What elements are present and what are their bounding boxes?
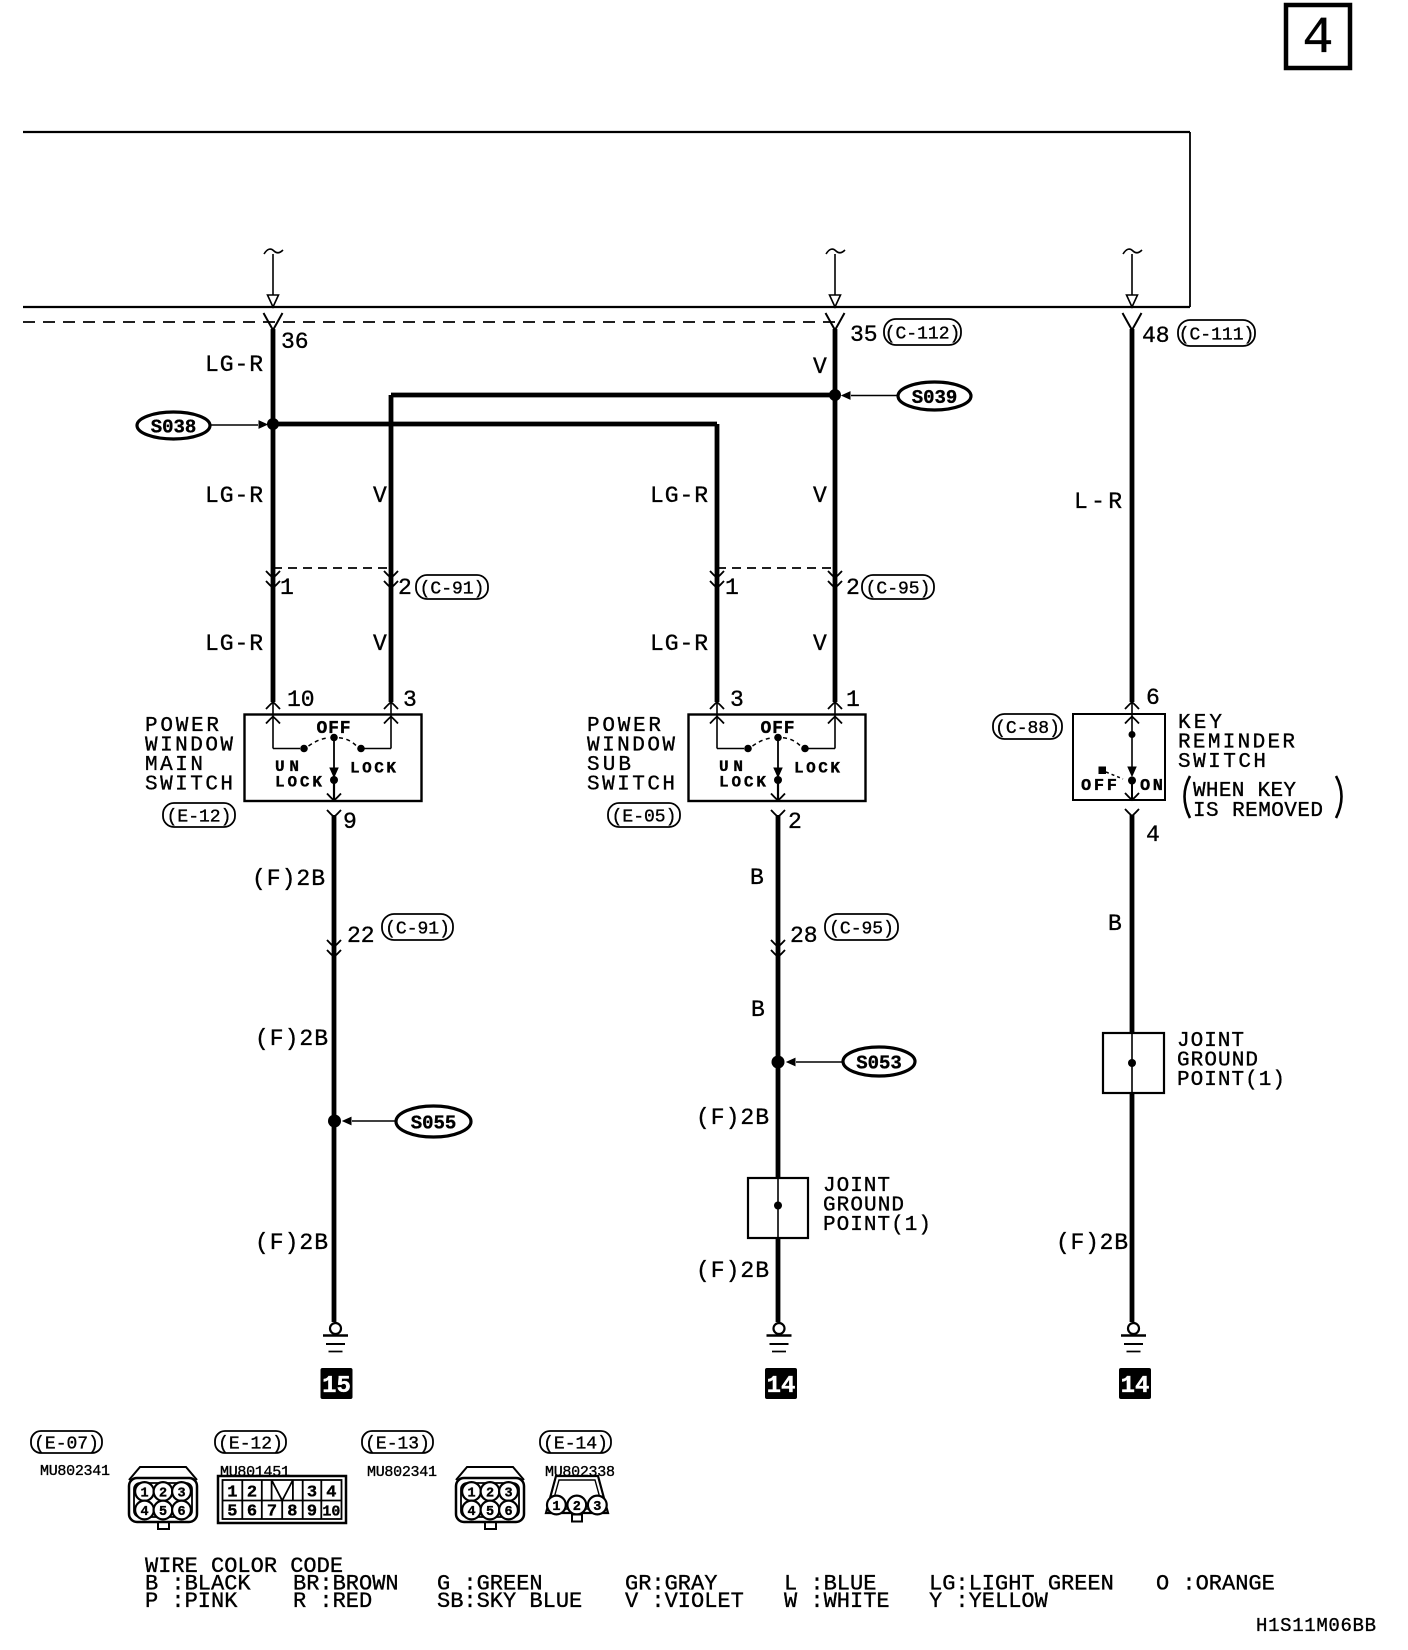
svg-text:7: 7 xyxy=(267,1503,277,1522)
svg-text:W :WHITE: W :WHITE xyxy=(784,1589,890,1614)
svg-text:V: V xyxy=(813,354,827,380)
svg-text:(F)2B: (F)2B xyxy=(1056,1230,1128,1256)
svg-text:2: 2 xyxy=(846,575,860,601)
svg-text:(C-112): (C-112) xyxy=(885,324,961,344)
svg-text:4: 4 xyxy=(326,1484,336,1503)
svg-text:3: 3 xyxy=(504,1487,512,1502)
svg-text:5: 5 xyxy=(486,1505,494,1520)
svg-text:WINDOW: WINDOW xyxy=(145,735,233,758)
svg-text:POINT(1): POINT(1) xyxy=(1177,1069,1285,1092)
svg-text:8: 8 xyxy=(287,1503,297,1522)
svg-text:(C-91): (C-91) xyxy=(385,919,450,939)
svg-text:(E-12): (E-12) xyxy=(218,1434,283,1454)
svg-text:LG-R: LG-R xyxy=(650,631,708,657)
svg-text:LG-R: LG-R xyxy=(205,352,263,378)
svg-text:9: 9 xyxy=(307,1503,317,1522)
svg-text:1: 1 xyxy=(467,1487,475,1502)
svg-text:LOCK: LOCK xyxy=(719,774,766,792)
svg-text:MU802341: MU802341 xyxy=(40,1463,110,1480)
svg-text:S055: S055 xyxy=(411,1113,457,1135)
svg-text:LG-R: LG-R xyxy=(650,483,708,509)
svg-text:4: 4 xyxy=(467,1505,475,1520)
svg-text:4: 4 xyxy=(1146,822,1160,848)
svg-text:2: 2 xyxy=(486,1487,494,1502)
svg-text:B: B xyxy=(750,865,764,891)
svg-text:(C-95): (C-95) xyxy=(866,579,931,599)
svg-text:3: 3 xyxy=(177,1487,185,1502)
svg-text:OFF: OFF xyxy=(761,719,795,739)
svg-text:(E-13): (E-13) xyxy=(365,1434,430,1454)
svg-text:B: B xyxy=(751,997,765,1023)
svg-text:O :ORANGE: O :ORANGE xyxy=(1156,1572,1275,1597)
svg-text:SB:SKY BLUE: SB:SKY BLUE xyxy=(437,1589,582,1614)
svg-text:1: 1 xyxy=(552,1500,560,1515)
svg-text:V: V xyxy=(813,483,827,509)
svg-text:10: 10 xyxy=(287,687,315,713)
svg-text:ON: ON xyxy=(1140,777,1163,796)
svg-text:6: 6 xyxy=(1146,685,1160,711)
svg-text:P :PINK: P :PINK xyxy=(145,1589,238,1614)
svg-text:2: 2 xyxy=(398,575,412,601)
svg-text:6: 6 xyxy=(247,1503,257,1522)
svg-text:WINDOW: WINDOW xyxy=(587,735,675,758)
svg-text:9: 9 xyxy=(343,809,357,835)
svg-text:LOCK: LOCK xyxy=(350,760,396,778)
svg-text:(E-14): (E-14) xyxy=(543,1434,608,1454)
svg-text:S053: S053 xyxy=(856,1053,902,1075)
svg-text:LOCK: LOCK xyxy=(794,760,840,778)
svg-text:(C-111): (C-111) xyxy=(1179,325,1255,345)
svg-text:28: 28 xyxy=(790,923,818,949)
svg-text:(F)2B: (F)2B xyxy=(696,1258,769,1284)
svg-text:L-R: L-R xyxy=(1074,489,1122,515)
svg-text:2: 2 xyxy=(159,1487,167,1502)
svg-text:V: V xyxy=(373,483,387,509)
svg-text:35: 35 xyxy=(850,322,878,348)
svg-text:(E-05): (E-05) xyxy=(612,807,677,827)
svg-text:3: 3 xyxy=(730,687,744,713)
svg-text:(C-91): (C-91) xyxy=(420,579,485,599)
svg-text:3: 3 xyxy=(307,1484,317,1503)
svg-text:V: V xyxy=(813,631,827,657)
svg-text:IS REMOVED: IS REMOVED xyxy=(1193,800,1323,823)
svg-text:LG-R: LG-R xyxy=(205,631,263,657)
svg-text:(C-95): (C-95) xyxy=(829,919,894,939)
svg-text:2: 2 xyxy=(573,1500,581,1515)
svg-text:V :VIOLET: V :VIOLET xyxy=(625,1589,744,1614)
svg-text:5: 5 xyxy=(227,1503,237,1522)
svg-text:(F)2B: (F)2B xyxy=(252,866,325,892)
svg-text:1: 1 xyxy=(140,1487,148,1502)
svg-text:5: 5 xyxy=(159,1505,167,1520)
svg-text:14: 14 xyxy=(767,1373,796,1400)
svg-text:3: 3 xyxy=(403,687,417,713)
svg-text:1: 1 xyxy=(280,575,294,601)
svg-text:1: 1 xyxy=(227,1484,237,1503)
svg-text:10: 10 xyxy=(322,1504,340,1521)
svg-text:36: 36 xyxy=(281,329,309,355)
svg-text:4: 4 xyxy=(1302,9,1333,68)
svg-text:OFF: OFF xyxy=(1081,777,1117,796)
svg-text:LOCK: LOCK xyxy=(275,774,322,792)
svg-text:(F)2B: (F)2B xyxy=(255,1026,328,1052)
svg-text:1: 1 xyxy=(846,687,860,713)
svg-text:22: 22 xyxy=(347,923,375,949)
svg-text:B: B xyxy=(1108,911,1122,937)
svg-text:2: 2 xyxy=(788,809,802,835)
svg-text:MU802341: MU802341 xyxy=(367,1464,437,1481)
svg-text:OFF: OFF xyxy=(317,719,351,739)
svg-text:15: 15 xyxy=(322,1373,351,1400)
svg-text:S038: S038 xyxy=(151,417,197,439)
svg-text:SWITCH: SWITCH xyxy=(587,774,675,797)
svg-text:Y :YELLOW: Y :YELLOW xyxy=(929,1589,1049,1614)
svg-text:14: 14 xyxy=(1121,1373,1150,1400)
svg-text:4: 4 xyxy=(140,1505,148,1520)
svg-text:(E-07): (E-07) xyxy=(34,1434,99,1454)
svg-text:H1S11M06BB: H1S11M06BB xyxy=(1256,1615,1376,1637)
svg-text:48: 48 xyxy=(1142,323,1170,349)
svg-text:(E-12): (E-12) xyxy=(167,807,232,827)
svg-text:POINT(1): POINT(1) xyxy=(823,1214,931,1237)
svg-text:6: 6 xyxy=(504,1505,512,1520)
svg-text:S039: S039 xyxy=(912,387,958,409)
svg-text:3: 3 xyxy=(593,1500,601,1515)
svg-text:(F)2B: (F)2B xyxy=(696,1105,769,1131)
svg-text:R :RED: R :RED xyxy=(293,1589,372,1614)
svg-text:MU801451: MU801451 xyxy=(220,1464,290,1481)
svg-text:V: V xyxy=(373,631,387,657)
svg-text:1: 1 xyxy=(725,575,739,601)
svg-text:(F)2B: (F)2B xyxy=(255,1230,328,1256)
svg-text:6: 6 xyxy=(177,1505,185,1520)
svg-text:(C-88): (C-88) xyxy=(995,719,1060,739)
svg-text:LG-R: LG-R xyxy=(205,483,263,509)
svg-text:SWITCH: SWITCH xyxy=(145,774,233,797)
svg-text:2: 2 xyxy=(247,1484,257,1503)
